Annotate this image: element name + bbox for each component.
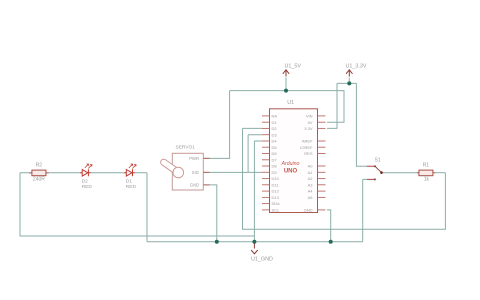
svg-text:240R: 240R [33, 176, 45, 182]
svg-text:SCL: SCL [272, 208, 281, 213]
svg-text:D9: D9 [272, 170, 278, 175]
svg-text:D1: D1 [272, 120, 278, 125]
svg-text:RED: RED [82, 184, 93, 190]
svg-text:VIN: VIN [306, 114, 313, 119]
svg-text:GND: GND [304, 208, 313, 213]
svg-text:A0: A0 [308, 164, 314, 169]
svg-text:SERVO1: SERVO1 [176, 145, 196, 151]
svg-text:GND: GND [190, 183, 199, 188]
svg-text:R2: R2 [36, 163, 43, 169]
svg-text:Arduino: Arduino [281, 161, 300, 167]
svg-text:AREF: AREF [302, 139, 313, 144]
svg-text:A1: A1 [308, 170, 314, 175]
svg-text:NA: NA [272, 114, 278, 119]
svg-text:D13: D13 [272, 195, 280, 200]
svg-text:A2: A2 [308, 176, 314, 181]
svg-text:5V: 5V [308, 120, 313, 125]
svg-text:D12: D12 [272, 189, 280, 194]
svg-text:RES: RES [304, 151, 313, 156]
svg-text:3.3V: 3.3V [304, 126, 313, 131]
svg-text:D2: D2 [272, 126, 278, 131]
svg-text:U1_5V: U1_5V [285, 63, 302, 69]
svg-text:U1: U1 [287, 100, 294, 106]
svg-text:D5: D5 [272, 145, 278, 150]
svg-text:A4: A4 [308, 189, 314, 194]
svg-text:D2: D2 [82, 178, 88, 184]
svg-text:D10: D10 [272, 176, 280, 181]
svg-text:R1: R1 [423, 163, 430, 169]
svg-text:RED: RED [126, 184, 137, 190]
svg-text:D8: D8 [272, 164, 278, 169]
svg-text:U1_3.3V: U1_3.3V [346, 63, 367, 69]
svg-text:D11: D11 [272, 182, 280, 187]
svg-text:IOREF: IOREF [300, 145, 313, 150]
svg-text:D4: D4 [272, 139, 278, 144]
svg-text:PWR: PWR [189, 156, 199, 161]
svg-text:D7: D7 [272, 157, 278, 162]
svg-text:D3: D3 [272, 132, 278, 137]
svg-text:D1: D1 [126, 178, 132, 184]
svg-text:UNO: UNO [284, 169, 298, 175]
svg-text:1k: 1k [424, 176, 430, 182]
svg-text:A3: A3 [308, 182, 314, 187]
svg-text:D6: D6 [272, 151, 278, 156]
svg-text:SDA: SDA [272, 201, 281, 206]
svg-text:U1_GND: U1_GND [251, 256, 273, 262]
svg-text:A5: A5 [308, 195, 314, 200]
svg-text:S1: S1 [375, 158, 381, 164]
svg-text:SIG: SIG [192, 170, 199, 175]
